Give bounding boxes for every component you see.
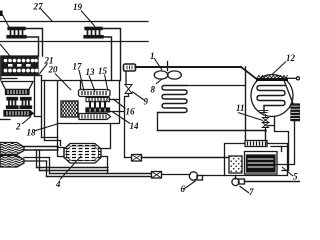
wire valve11 junction dot bbox=[264, 129, 267, 132]
finned element 16 (in middle box) bbox=[86, 98, 110, 113]
pump 7 bbox=[232, 176, 245, 186]
leader 15 bbox=[105, 75, 109, 92]
relief circle bbox=[296, 77, 299, 80]
evaporator middle box bbox=[58, 81, 120, 124]
svg-text:13: 13 bbox=[86, 67, 96, 77]
svg-text:27: 27 bbox=[33, 2, 44, 12]
wire E1 outlet lower bbox=[24, 149, 58, 151]
svg-text:19: 19 bbox=[73, 2, 83, 12]
finned element left-a bbox=[7, 98, 19, 109]
coil box 17 bbox=[61, 101, 78, 117]
svg-text:11: 11 bbox=[236, 103, 245, 113]
striped bar top bbox=[245, 141, 267, 147]
wire duct bottom line bbox=[0, 41, 148, 43]
wire E2 outlet lower bbox=[24, 160, 47, 162]
wire bottom pair lower bbox=[47, 176, 152, 178]
leader 13 bbox=[89, 76, 95, 92]
leader left-edge partial bbox=[0, 44, 10, 56]
wire comp2 top pipe bbox=[101, 29, 121, 81]
wire circle drop right bbox=[274, 117, 276, 126]
svg-text:8: 8 bbox=[151, 85, 156, 95]
leader 12 bbox=[272, 62, 286, 75]
wire valve9 down to SB2 bbox=[125, 94, 129, 158]
svg-text:20: 20 bbox=[48, 65, 59, 75]
svg-text:12: 12 bbox=[286, 53, 296, 63]
leader top-left partial bbox=[2, 14, 9, 27]
leader 17 bbox=[79, 70, 84, 91]
wire bottom pair upper bbox=[37, 167, 109, 169]
svg-text:9: 9 bbox=[144, 97, 149, 107]
striped bar 13 bbox=[79, 90, 111, 97]
wire right riser b bbox=[276, 121, 295, 165]
wire SB2 link bbox=[125, 157, 132, 159]
control box SB1 bbox=[124, 64, 136, 71]
wire left edge bbox=[0, 56, 2, 80]
wire main vertical riser bbox=[245, 67, 247, 144]
valve 9 bbox=[125, 85, 132, 94]
heat exchanger 24 (top-left finned) bbox=[7, 27, 26, 38]
coil exit ticks bbox=[259, 111, 268, 113]
wire inner box drop bbox=[281, 147, 283, 152]
leader lines bbox=[0, 8, 293, 193]
wire E1 outlet upper bbox=[24, 146, 58, 148]
svg-text:1: 1 bbox=[150, 51, 155, 61]
wire tank right nozzle upper bbox=[101, 124, 111, 149]
leader 21 bbox=[39, 64, 47, 75]
wire E1 drop pair bbox=[37, 150, 40, 171]
wire fin bottom link bbox=[109, 111, 124, 113]
fan 1 blades bbox=[154, 71, 181, 79]
striped bar 20a bbox=[6, 90, 30, 95]
svg-text:6: 6 bbox=[181, 184, 186, 194]
wire comp1 top pipe bbox=[24, 29, 43, 57]
svg-text:17: 17 bbox=[73, 62, 83, 72]
valve 6 (gate) bbox=[152, 172, 162, 179]
wire generator top-right feed bbox=[271, 146, 289, 148]
heat exchanger 19 (top-middle finned) bbox=[84, 27, 103, 38]
wire tank right nozzle lower bbox=[101, 157, 108, 174]
wire under-box stub bbox=[2, 78, 17, 80]
wire comp1 bottom pipe bbox=[26, 37, 39, 56]
wire E2 outlet upper bbox=[24, 157, 50, 159]
wire pair to tank elbow upper bbox=[42, 137, 58, 139]
wire left feed pipe bbox=[45, 80, 58, 82]
wire E2 drop pair bbox=[47, 158, 50, 177]
wire left column downcomer a bbox=[38, 76, 42, 138]
leader 14 bbox=[112, 112, 130, 124]
inner box bbox=[245, 152, 278, 175]
svg-text:18: 18 bbox=[27, 128, 37, 138]
wire left edge stub low bbox=[0, 119, 10, 121]
leader 9 bbox=[132, 92, 144, 101]
leader 5 bbox=[282, 167, 293, 176]
svg-text:7: 7 bbox=[249, 187, 254, 197]
wire condenser inlet elbow bbox=[241, 67, 256, 79]
wire middlebox left drop bbox=[57, 124, 59, 148]
leader 16 bbox=[113, 99, 126, 109]
wire duct top line bbox=[0, 21, 148, 23]
striped bar 2 bbox=[4, 111, 33, 117]
pump 6 bbox=[189, 172, 202, 180]
leader 1 bbox=[154, 58, 162, 70]
svg-text:5: 5 bbox=[293, 172, 298, 182]
wire valve to pump pipe bbox=[162, 174, 191, 176]
evaporator coil 8 (serpentine) bbox=[158, 86, 188, 113]
condenser 12 (circle) bbox=[251, 75, 293, 117]
generator box (bottom right) bbox=[225, 144, 288, 176]
wire pair to tank elbow lower bbox=[45, 140, 61, 142]
adsorbent bed 21 (box with circles) bbox=[2, 56, 38, 76]
label partial top-left bbox=[0, 11, 3, 17]
dotted box left bbox=[229, 156, 242, 173]
wire bottom pair upper2 bbox=[40, 170, 109, 172]
svg-text:16: 16 bbox=[126, 107, 136, 117]
wire elbow inner bbox=[60, 141, 62, 146]
leader 20 bbox=[55, 74, 71, 91]
wire inner divider bbox=[80, 81, 82, 91]
burner dark box bbox=[247, 155, 276, 172]
wire bottom pair lower2 bbox=[50, 173, 152, 175]
svg-text:14: 14 bbox=[130, 121, 140, 131]
finned element left-b bbox=[20, 98, 32, 109]
wire junction to generator bar bbox=[265, 131, 267, 141]
wire SB2 to generator bbox=[142, 157, 230, 159]
svg-text:4: 4 bbox=[55, 179, 61, 189]
leader 4 bbox=[60, 156, 81, 180]
leader 8 bbox=[156, 79, 163, 85]
wire valve11 right branch bbox=[268, 126, 289, 171]
wire comp2 bottom pipe bbox=[103, 37, 112, 81]
wire circle to aux stack bbox=[285, 82, 294, 104]
wire left column downcomer b bbox=[42, 81, 45, 141]
water tank 3 (hexagonal hatched) bbox=[58, 144, 102, 164]
wire pipe under box bbox=[245, 181, 301, 183]
wire long return line bbox=[158, 130, 266, 132]
wire condenser right stub bbox=[284, 77, 296, 79]
leader 27 bbox=[40, 8, 52, 21]
funnel hopper bbox=[2, 82, 34, 90]
striped bar 14 bbox=[79, 114, 111, 120]
wire bar2 to downcomer bbox=[33, 76, 42, 117]
svg-text:2: 2 bbox=[15, 122, 21, 132]
small box SB2 bbox=[132, 155, 142, 162]
leader 6 bbox=[184, 181, 196, 190]
ejector E1 (top cone) bbox=[0, 143, 24, 155]
aux coil stack right bbox=[291, 104, 300, 121]
leader 7 bbox=[240, 186, 250, 193]
leader 18 bbox=[34, 124, 57, 131]
ejector E2 (bottom cone) bbox=[0, 156, 24, 168]
leader 19 bbox=[81, 11, 95, 27]
wire fan shaft bbox=[167, 62, 169, 71]
wire pump to generator pipe bbox=[203, 175, 225, 177]
wire fin top link bbox=[109, 99, 120, 101]
wire coil8 top to junction bbox=[187, 85, 246, 87]
svg-text:15: 15 bbox=[98, 66, 108, 76]
leader 2 bbox=[22, 117, 31, 125]
wire valve9 riser bbox=[125, 71, 127, 85]
expansion valve 11 bbox=[263, 115, 269, 131]
fan line (thick) bbox=[136, 66, 242, 68]
leader 11 bbox=[238, 113, 263, 121]
wire coil8 bottom drop bbox=[157, 113, 159, 131]
